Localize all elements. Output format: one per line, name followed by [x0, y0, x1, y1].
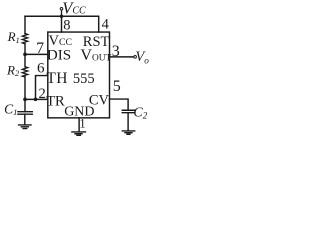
- svg-text:8: 8: [63, 18, 70, 34]
- node Vo terminal circle: [134, 56, 137, 59]
- node junction dot top: [60, 14, 64, 18]
- ground (C1): [19, 125, 31, 129]
- svg-text:2: 2: [39, 86, 46, 102]
- wire C1 to ground: [24, 114, 26, 125]
- wire C2 to ground: [127, 113, 129, 131]
- wire left rail mid: [24, 44, 26, 67]
- wire pin 2: [25, 98, 48, 100]
- wire pin 8 drop: [61, 16, 63, 32]
- svg-text:3: 3: [112, 43, 120, 60]
- wire pin 3 output: [110, 56, 134, 58]
- resistor R2: [22, 67, 27, 77]
- node junction dot pin6/pin2: [34, 98, 38, 102]
- resistor R1: [22, 34, 27, 44]
- wire left rail lower: [24, 77, 26, 112]
- svg-text:555: 555: [73, 71, 95, 87]
- svg-text:DIS: DIS: [47, 47, 71, 63]
- op IC 555 box U1: [48, 32, 110, 118]
- ground (C2): [122, 131, 134, 134]
- wire pin 7: [25, 53, 48, 55]
- svg-text:TH: TH: [46, 70, 67, 87]
- ground (pin 1): [72, 132, 86, 135]
- wire pin 5: [110, 99, 129, 110]
- svg-text:GND: GND: [64, 104, 94, 119]
- wire left rail top: [24, 16, 26, 33]
- node junction dot R1/R2 pin7: [23, 53, 27, 57]
- svg-text:7: 7: [36, 40, 44, 57]
- capacitor C2: [122, 110, 135, 112]
- wire pin 6: [36, 76, 48, 100]
- svg-text:6: 6: [37, 61, 45, 77]
- wire VCC stem: [61, 10, 63, 16]
- wire pin 1 drop: [78, 118, 80, 131]
- node junction dot left rail pin2: [23, 98, 27, 102]
- node VCC terminal circle: [60, 7, 63, 10]
- capacitor C1: [18, 112, 32, 115]
- wire top rail VCC to pin4: [25, 16, 99, 32]
- svg-text:4: 4: [102, 17, 110, 33]
- svg-text:5: 5: [113, 78, 121, 95]
- svg-text:TR: TR: [46, 93, 65, 109]
